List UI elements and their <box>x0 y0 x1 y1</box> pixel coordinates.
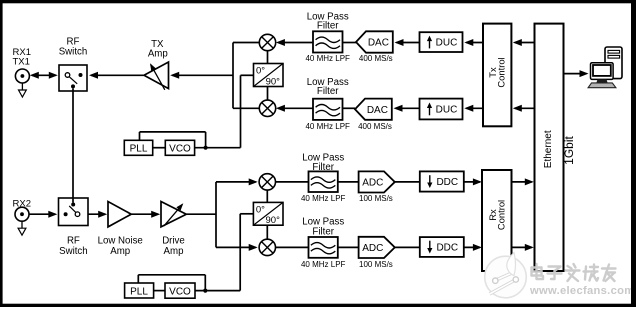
wire RF switch SW1 to RF switch SW2 <box>72 88 74 202</box>
wire Tx Control to DUC2 <box>464 105 483 112</box>
value label 40 MHz LPF (FL4) <box>301 260 346 269</box>
svg-text:PLL: PLL <box>130 144 148 155</box>
value label 100 MS/s (ADC2) <box>359 260 393 269</box>
ADC2 <box>359 237 395 258</box>
ADC1 <box>359 171 395 192</box>
DDC1 (digital down-converter) <box>420 171 464 191</box>
svg-text:0°: 0° <box>256 66 265 77</box>
VCO1 <box>165 140 194 155</box>
antenna port RX1/TX1 <box>15 69 29 97</box>
svg-text:DUC: DUC <box>436 38 458 49</box>
wire drive amp to RX splitter node <box>186 213 216 215</box>
wire DUC1 to DAC1 <box>395 39 420 46</box>
DUC2 (digital up-converter) <box>420 99 463 120</box>
svg-text:40 MHz LPF: 40 MHz LPF <box>305 54 350 63</box>
svg-text:Filter: Filter <box>312 162 334 173</box>
wire LPF1 to DAC1 <box>343 42 357 44</box>
svg-text:ADC: ADC <box>362 178 383 189</box>
label TX Amp <box>148 39 168 59</box>
svg-text:DAC: DAC <box>368 38 389 49</box>
wire LO from VCO1 to splitter U1 <box>241 75 254 147</box>
Rx Control block <box>482 170 512 271</box>
wire VCO2 feedback to PLL2 <box>138 275 205 291</box>
wire PLL2 to VCO2 <box>154 290 165 292</box>
label Low Noise Amp <box>98 235 143 257</box>
svg-text:DDC: DDC <box>436 177 458 188</box>
TX amp A1 <box>144 62 169 90</box>
wire LPF3 to ADC1 <box>338 181 359 183</box>
value label 40 MHz LPF (FL2) <box>305 122 350 131</box>
DAC1 <box>356 31 393 52</box>
host PC icon <box>588 47 622 88</box>
svg-text:RF: RF <box>67 235 80 246</box>
wire DUC2 to DAC2 <box>394 105 420 112</box>
low pass filter FL2 <box>313 99 343 120</box>
mixer M1 (Tx I) <box>259 34 275 50</box>
value label 100 MS/s (ADC1) <box>359 194 393 203</box>
wire splitter to mixer M4 <box>216 244 258 251</box>
wire TX summing vertical (mixer outputs) <box>233 43 259 109</box>
svg-text:Amp: Amp <box>148 48 168 59</box>
wire VCO2 output to LO line <box>195 290 240 292</box>
svg-text:40 MHz LPF: 40 MHz LPF <box>301 260 346 269</box>
label Low Pass Filter (FL4) <box>302 217 344 238</box>
label RF Switch (SW1) <box>59 36 88 57</box>
svg-text:DDC: DDC <box>436 243 458 254</box>
wire RF switch SW2 to low noise amp <box>88 211 107 218</box>
svg-text:Drive: Drive <box>162 235 185 246</box>
value label 400 MS/s (DAC1) <box>359 54 393 63</box>
svg-text:100 MS/s: 100 MS/s <box>359 194 393 203</box>
svg-text:40 MHz LPF: 40 MHz LPF <box>301 194 346 203</box>
svg-text:www.elecfans.com: www.elecfans.com <box>529 285 635 297</box>
wire Rx Control to Ethernet (row 2) <box>512 244 534 251</box>
wire RX splitter vertical <box>215 182 217 248</box>
label Low Pass Filter (FL3) <box>302 152 344 173</box>
wire Ethernet to Tx Control <box>513 39 535 46</box>
VCO2 <box>165 283 195 298</box>
mixer M3 (Rx I) <box>259 174 275 190</box>
watermark logo (decorative) <box>485 253 527 298</box>
label 1Gbit <box>562 135 576 164</box>
wire mixer M3 to LPF3 <box>276 181 309 183</box>
svg-text:100 MS/s: 100 MS/s <box>359 260 393 269</box>
wire LPF1 to mixer M1 <box>276 39 313 46</box>
low pass filter FL3 <box>309 171 338 192</box>
label Ethernet <box>543 130 554 168</box>
mixer M4 (Rx Q) <box>259 239 275 255</box>
wire LO from VCO2 to splitter U2 <box>240 214 253 291</box>
node RX2 label <box>13 199 31 210</box>
svg-text:Ethernet: Ethernet <box>543 130 554 168</box>
wire DDC2 to Rx Control <box>464 244 482 251</box>
wire LPF2 to DAC2 <box>343 107 356 109</box>
wire PLL1 to VCO1 <box>153 147 166 149</box>
RF switch SW1 <box>59 65 87 91</box>
wire splitter to mixer M3 <box>216 178 258 185</box>
wire ADC1 to DDC1 <box>395 181 420 183</box>
wire Ethernet to host PC <box>564 70 589 77</box>
wire summing node to TX amp <box>170 72 233 79</box>
svg-text:Low Noise: Low Noise <box>98 235 143 246</box>
svg-text:DUC: DUC <box>436 105 458 116</box>
wire DDC1 to Rx Control <box>464 178 482 185</box>
wire VCO1 feedback to PLL1 <box>140 132 206 148</box>
svg-text:400 MS/s: 400 MS/s <box>359 54 393 63</box>
svg-text:90°: 90° <box>266 215 281 226</box>
wire mixer M2 to quadrature splitter <box>267 87 269 101</box>
DUC1 (digital up-converter) <box>420 32 463 52</box>
wire ADC2 to DDC2 <box>395 246 420 248</box>
wire antenna1 to RF switch (bidirectional arrow) <box>30 72 58 79</box>
junction VCO1 output <box>204 146 208 150</box>
wire mixer M4 to LPF4 <box>276 246 309 248</box>
label RF Switch (SW2) <box>59 235 88 257</box>
wire mixer M1 to quadrature splitter <box>267 51 269 64</box>
svg-text:Filter: Filter <box>312 226 334 237</box>
svg-text:Control: Control <box>496 200 507 230</box>
svg-text:0°: 0° <box>256 204 265 215</box>
quadrature phase splitter U2 (0/90) <box>253 202 283 226</box>
Ethernet interface block <box>535 24 564 271</box>
label Rx Control <box>487 200 507 230</box>
Tx Control block <box>483 24 511 127</box>
svg-text:Amp: Amp <box>164 246 184 257</box>
svg-text:PLL: PLL <box>130 287 148 298</box>
mixer M2 (Tx Q) <box>259 100 275 116</box>
svg-text:Filter: Filter <box>317 86 339 97</box>
node RX1/TX1 labels <box>13 47 31 67</box>
low pass filter FL1 <box>313 31 343 52</box>
DDC2 (digital down-converter) <box>420 237 464 257</box>
DAC2 <box>355 99 392 120</box>
value label 40 MHz LPF (FL1) <box>305 54 350 63</box>
low noise amp A2 <box>108 202 131 227</box>
antenna port RX2 <box>15 207 29 235</box>
svg-text:400 MS/s: 400 MS/s <box>358 122 392 131</box>
svg-text:VCO: VCO <box>169 144 191 155</box>
wire mixer M4 to quadrature splitter U2 <box>266 225 268 239</box>
quadrature phase splitter U1 (0/90) <box>254 64 284 88</box>
label Tx Control <box>487 57 507 87</box>
svg-text:VCO: VCO <box>169 287 191 298</box>
RF switch SW2 <box>59 198 89 226</box>
wire antenna2 to RF switch SW2 <box>29 211 57 218</box>
svg-text:Switch: Switch <box>59 246 88 257</box>
label Low Pass Filter (FL1) <box>307 12 349 32</box>
wire TX amp output to RF switch SW1 <box>89 72 144 79</box>
svg-text:Control: Control <box>496 57 507 87</box>
watermark text (decorative) <box>529 264 635 297</box>
svg-text:Switch: Switch <box>59 47 88 58</box>
wire LPF2 to mixer M2 <box>276 105 313 112</box>
svg-text:40 MHz LPF: 40 MHz LPF <box>305 122 350 131</box>
low pass filter FL4 <box>309 237 338 258</box>
svg-text:ADC: ADC <box>362 243 383 254</box>
drive amp A3 <box>161 202 186 227</box>
PLL1 <box>124 140 152 155</box>
svg-text:Amp: Amp <box>110 246 130 257</box>
wire Tx Control to DUC1 <box>464 39 483 46</box>
wire Ethernet to Tx Control (row 2) <box>513 105 535 112</box>
wire VCO1 output to LO line <box>195 147 241 149</box>
wire LNA to drive amp <box>131 211 160 218</box>
svg-text:1Gbit: 1Gbit <box>562 135 576 164</box>
wire Rx Control to Ethernet <box>512 178 534 185</box>
svg-text:DAC: DAC <box>367 105 388 116</box>
value label 400 MS/s (DAC2) <box>358 122 392 131</box>
junction VCO2 output <box>203 289 207 293</box>
label Drive Amp <box>162 235 185 257</box>
svg-text:90°: 90° <box>266 76 281 87</box>
svg-text:Filter: Filter <box>317 21 339 32</box>
value label 40 MHz LPF (FL3) <box>301 194 346 203</box>
wire LPF4 to ADC2 <box>338 246 359 248</box>
wire mixer M3 to quadrature splitter U2 <box>266 190 268 202</box>
PLL2 <box>125 283 154 298</box>
label Low Pass Filter (FL2) <box>307 77 349 97</box>
svg-text:TX1: TX1 <box>13 57 30 68</box>
